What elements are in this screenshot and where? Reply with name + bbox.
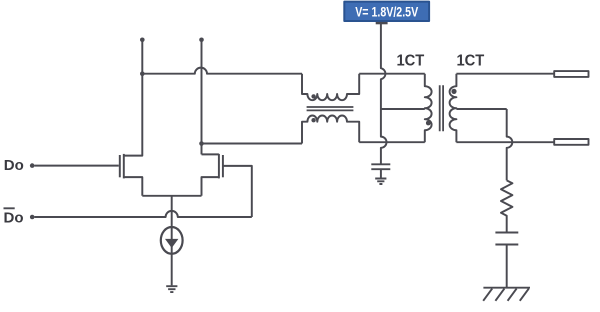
ground under C1 — [375, 179, 386, 185]
inductor L2 choke bottom winding — [302, 115, 359, 143]
wire M2 gate to Do-bar line — [223, 166, 252, 217]
transformer T1 secondary winding — [450, 74, 457, 143]
terminal pad 1 — [554, 71, 588, 77]
terminal pad 2 — [554, 139, 588, 145]
chassis ground line — [483, 287, 530, 289]
wire primary center tap — [381, 108, 425, 110]
transistor M1 channel bar — [123, 154, 125, 179]
supply box V=1.8V/2.5V — [344, 2, 429, 21]
svg-text:Do: Do — [4, 209, 24, 226]
wire Do input to M1 gate — [35, 165, 119, 167]
transistor M1 gate bar — [119, 155, 121, 177]
svg-text:1CT: 1CT — [397, 53, 425, 70]
transformer T1 primary winding — [425, 74, 432, 143]
transformer T1 core — [440, 85, 443, 131]
svg-text:V= 1.8V/2.5V: V= 1.8V/2.5V — [355, 4, 418, 19]
node secondary polarity dot — [451, 89, 456, 94]
node choke bottom polarity dot — [311, 118, 315, 122]
node M1 drain top dot — [140, 38, 145, 43]
wire secondary bottom lead to terminal — [456, 141, 554, 143]
node junction M1 drain / top rail dot — [140, 71, 145, 76]
wire Do-bar input to M2 gate, hop over tail at x=171.7 — [35, 211, 252, 217]
current source I1 circle — [161, 227, 183, 254]
wire common source join — [142, 195, 201, 197]
current source wire through — [171, 227, 173, 285]
svg-text:1CT: 1CT — [457, 53, 485, 70]
transistor M1 drain lead — [124, 40, 143, 156]
wire C1 to ground — [380, 169, 382, 178]
transistor M2 gate bar — [222, 155, 224, 177]
current source arrow — [165, 239, 178, 248]
supply tick bar — [376, 22, 388, 24]
wire supply vertical with hops over rails — [381, 23, 387, 163]
node M2 drain top dot — [199, 38, 204, 43]
transistor M2 channel bar — [218, 154, 220, 179]
wire tail to current source — [171, 196, 173, 227]
choke core lines — [307, 107, 354, 110]
label Do-bar — [4, 207, 15, 209]
transistor M2 drain lead vertical — [201, 40, 203, 155]
node Do terminal dot — [30, 163, 35, 168]
wire secondary center tap, hop over bottom lead — [456, 109, 512, 180]
chassis ground hatches — [483, 289, 529, 301]
inductor L1 choke top winding — [302, 74, 359, 101]
resistor R1 — [501, 180, 512, 231]
capacitor C1 bypass top plate — [371, 163, 390, 165]
node junction M2 drain to choke — [199, 141, 204, 146]
wire C2 to chassis ground — [506, 245, 508, 288]
wire choke bottom to transformer primary bottom — [359, 141, 425, 143]
capacitor C2 bottom plate — [495, 244, 518, 246]
transistor M1 source lead — [124, 177, 143, 196]
capacitor C1 bypass bottom plate — [371, 168, 390, 170]
capacitor C2 top plate — [495, 232, 518, 234]
wire choke top to transformer primary top — [359, 73, 425, 75]
wire M2 drain to choke bottom — [202, 143, 303, 145]
node Do-bar terminal dot — [30, 215, 35, 220]
transistor M2 source lead — [202, 177, 219, 196]
svg-text:Do: Do — [4, 157, 24, 174]
transistor M2 drain horizontal — [202, 153, 219, 155]
node primary polarity dot — [426, 121, 431, 126]
ground under current source — [166, 286, 177, 292]
node choke top polarity dot — [311, 94, 315, 98]
wire top rail to choke, hop over M2 drain at x=201 — [142, 68, 302, 74]
wire secondary top lead to terminal — [456, 73, 554, 75]
